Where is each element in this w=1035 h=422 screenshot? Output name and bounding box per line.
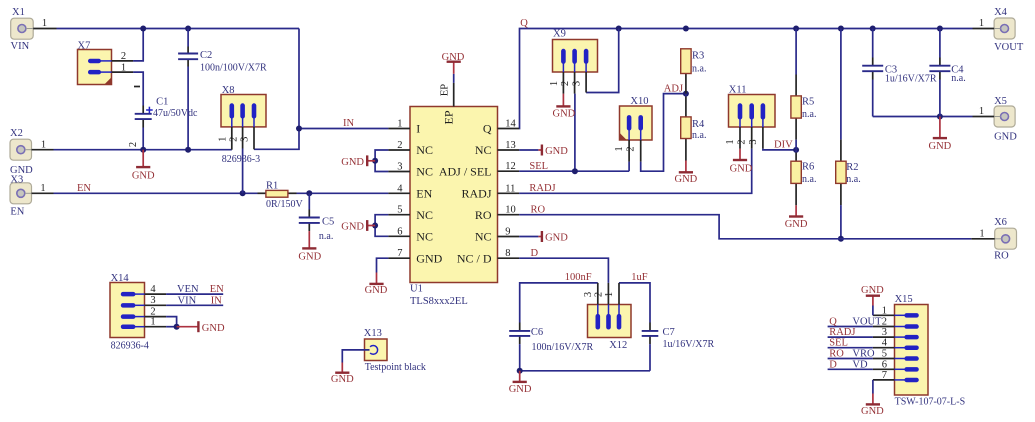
svg-text:VD: VD [852, 359, 868, 370]
svg-text:EP: EP [439, 84, 450, 96]
X15 pin 2 Q VOUT wire [828, 317, 895, 328]
X14 pin 4 VEN wire [145, 284, 225, 295]
U1 pin 2 NC [388, 140, 433, 157]
svg-text:2: 2 [882, 317, 887, 328]
svg-text:2: 2 [594, 292, 605, 297]
svg-text:C2: C2 [200, 50, 212, 61]
svg-text:X4: X4 [994, 7, 1008, 18]
svg-text:2: 2 [560, 81, 571, 86]
svg-text:n.a.: n.a. [319, 231, 333, 242]
svg-text:C1: C1 [156, 97, 168, 108]
svg-text:GND: GND [675, 174, 698, 185]
connector X2 GND [10, 128, 54, 176]
svg-text:n.a.: n.a. [692, 130, 706, 141]
wire U1 pins5-6 to ground [375, 215, 388, 237]
svg-text:RADJ: RADJ [829, 327, 855, 338]
svg-text:GND: GND [785, 219, 808, 230]
node X14 gnd junction [174, 324, 180, 330]
capacitor C4 n.a. [929, 64, 965, 84]
U1 pin 13 NC [475, 140, 519, 157]
U1 pin 9 NC [475, 227, 519, 244]
svg-text:NC: NC [416, 208, 433, 222]
wire R6 top from DIV [795, 150, 797, 161]
svg-text:GND: GND [202, 323, 225, 334]
svg-text:2: 2 [228, 137, 239, 142]
ground below X11 pin1 [730, 149, 753, 175]
wire U1 pin7 to ground [377, 258, 389, 272]
wire X10 pin1 stub to SEL [628, 162, 630, 172]
svg-text:SEL: SEL [529, 161, 548, 172]
svg-text:1: 1 [549, 81, 560, 86]
wire X10 pin2 to ADJ [641, 94, 686, 172]
svg-text:X14: X14 [111, 273, 130, 284]
svg-text:7: 7 [882, 370, 887, 381]
connector X8 826936-3 [217, 85, 266, 193]
U1 pin 8 NC / D [457, 248, 519, 265]
svg-text:1uF: 1uF [631, 272, 648, 283]
svg-text:C7: C7 [663, 327, 675, 338]
wire Q net from U1 pin14 along top [519, 29, 972, 129]
X15 pin 6 D VD wire [828, 359, 895, 370]
U1 pin 4 EN [388, 183, 432, 200]
node EN junction at C5 [306, 190, 312, 196]
ground left of U1 pins5-6 [341, 220, 375, 233]
svg-text:1: 1 [979, 228, 984, 239]
svg-text:GND: GND [929, 141, 952, 152]
svg-text:n.a.: n.a. [692, 64, 706, 75]
svg-text:GND: GND [416, 251, 442, 265]
connector X12 [583, 283, 631, 351]
U1 pin 14 Q [483, 119, 519, 136]
wire U1 pins2-3 to ground [375, 150, 388, 172]
svg-text:n.a.: n.a. [802, 109, 816, 120]
connector X1 VIN [11, 7, 57, 52]
svg-text:4: 4 [882, 338, 888, 349]
svg-text:1: 1 [725, 139, 736, 144]
ground below X15 pin7 [861, 394, 884, 418]
U1 pin 10 RO [475, 205, 519, 222]
node SEL junction X9 pin2 [572, 168, 578, 174]
op-amp-like IC U1 TLS8xxx2EL body [410, 107, 498, 307]
ground below C4 [929, 117, 952, 152]
connector X10 [614, 96, 652, 162]
ground below R6 [785, 183, 808, 229]
node Q junction R2 [838, 26, 844, 32]
svg-text:1: 1 [121, 62, 126, 73]
wire X9 pin3 to Q [586, 29, 619, 93]
capacitor C2 100n/100V/X7R [178, 50, 267, 73]
node Q junction C3 [870, 26, 876, 32]
U1 pin 12 ADJ / SEL [439, 161, 519, 179]
U1 pin 3 NC [388, 162, 433, 179]
svg-text:GND: GND [994, 132, 1017, 143]
svg-text:Q: Q [520, 18, 528, 29]
svg-text:X1: X1 [12, 7, 25, 18]
svg-text:100nF: 100nF [565, 272, 592, 283]
svg-text:RO: RO [531, 205, 546, 216]
svg-text:1: 1 [979, 106, 984, 117]
X14 pin 3 VIN wire [145, 295, 224, 306]
svg-text:EN: EN [77, 183, 91, 194]
resistor R2 n.a. [836, 161, 861, 185]
svg-text:826936-3: 826936-3 [222, 154, 260, 165]
svg-text:1: 1 [150, 317, 155, 328]
svg-text:R6: R6 [802, 162, 814, 173]
U1 pin EP [439, 83, 455, 125]
connector X14 826936-4 [110, 273, 149, 352]
connector X6 RO [971, 217, 1016, 262]
wire R2 top from Q [840, 29, 842, 162]
ground below R4 [675, 139, 698, 186]
svg-text:NC: NC [416, 230, 433, 244]
svg-text:GND: GND [553, 109, 576, 120]
wire VOUT bottom segment C3 to X5 [873, 116, 973, 118]
node VIN junction at C1 branch [140, 26, 146, 32]
node EN junction at X8 pin2 [240, 190, 246, 196]
svg-text:47u/50Vdc: 47u/50Vdc [153, 108, 198, 119]
node Q junction R3 [683, 26, 689, 32]
wire X11 pin3 to DIV [763, 149, 796, 150]
svg-text:GND: GND [365, 285, 388, 296]
svg-text:C5: C5 [322, 216, 334, 227]
svg-text:Q: Q [483, 122, 492, 136]
svg-text:NC: NC [416, 143, 433, 157]
wire C2 branch vertical [187, 29, 189, 150]
svg-text:13: 13 [505, 140, 516, 151]
svg-text:NC: NC [475, 230, 492, 244]
svg-text:n.a.: n.a. [802, 174, 816, 185]
svg-text:1u/16V/X7R: 1u/16V/X7R [663, 339, 715, 350]
U1 pin 1 I [388, 119, 420, 136]
svg-text:1: 1 [979, 18, 984, 29]
resistor R4 n.a. [681, 117, 707, 141]
svg-text:GND: GND [442, 52, 465, 63]
node IN junction [296, 126, 302, 132]
svg-text:2: 2 [128, 142, 139, 147]
svg-text:GND: GND [730, 163, 753, 174]
connector X5 GND [973, 96, 1018, 143]
svg-text:X3: X3 [10, 175, 23, 186]
svg-text:Testpoint black: Testpoint black [365, 362, 426, 373]
svg-text:4: 4 [397, 183, 403, 194]
node VIN junction at C2 branch [185, 26, 191, 32]
svg-text:3: 3 [882, 327, 887, 338]
svg-text:RO: RO [475, 208, 492, 222]
svg-text:826936-4: 826936-4 [111, 340, 149, 351]
ground below C5 [298, 231, 321, 262]
node U1 pin5-6 gnd junction [372, 223, 378, 229]
svg-text:EN: EN [210, 284, 224, 295]
X15 pin 1 wire to ground [873, 305, 895, 316]
svg-text:GND: GND [545, 146, 568, 157]
svg-text:1: 1 [217, 137, 228, 142]
svg-text:5: 5 [882, 349, 887, 360]
svg-text:IN: IN [343, 118, 354, 129]
svg-text:X15: X15 [895, 294, 913, 305]
svg-text:1: 1 [42, 18, 47, 29]
node GND junction at C2 [185, 147, 191, 153]
ground below X9 pin1 [553, 94, 576, 120]
svg-text:NC / D: NC / D [457, 251, 492, 265]
svg-text:8: 8 [505, 248, 510, 259]
svg-text:ADJ: ADJ [664, 84, 683, 95]
svg-text:12: 12 [505, 161, 516, 172]
wire X9 pin2 to SEL [574, 94, 576, 172]
wire R4 top from ADJ [685, 94, 687, 117]
wire 1uF branch to C7 [619, 283, 650, 371]
ground right of U1 pin9 [519, 231, 568, 244]
svg-text:1: 1 [614, 146, 625, 151]
svg-text:NC: NC [416, 165, 433, 179]
svg-text:2: 2 [625, 146, 636, 151]
svg-text:X8: X8 [222, 85, 235, 96]
svg-text:SEL: SEL [829, 338, 848, 349]
svg-text:9: 9 [505, 227, 510, 238]
svg-text:Q: Q [829, 317, 837, 328]
svg-text:6: 6 [397, 226, 402, 237]
svg-text:IN: IN [211, 295, 222, 306]
svg-text:X12: X12 [609, 340, 627, 351]
svg-text:VEN: VEN [177, 284, 199, 295]
svg-text:2: 2 [121, 51, 126, 62]
svg-text:n.a.: n.a. [846, 174, 860, 185]
svg-text:DIV: DIV [774, 140, 793, 151]
svg-text:X2: X2 [10, 128, 23, 139]
svg-text:1: 1 [397, 119, 402, 130]
X15 pin 4 SEL wire [828, 338, 895, 349]
ground right of X14 [177, 321, 225, 334]
ground below C6 [509, 371, 532, 395]
ground left of U1 pins2-3 [341, 155, 375, 168]
svg-text:100n/16V/X7R: 100n/16V/X7R [532, 342, 594, 353]
svg-text:3: 3 [748, 139, 759, 144]
resistor R3 n.a. [681, 49, 707, 75]
svg-text:GND: GND [132, 171, 155, 182]
svg-text:X11: X11 [729, 85, 747, 96]
svg-text:1u/16V/X7R: 1u/16V/X7R [885, 73, 937, 84]
wire RADJ net [519, 149, 752, 194]
node Q junction R5 [793, 26, 799, 32]
svg-text:C6: C6 [531, 327, 543, 338]
wire C3 vertical [872, 29, 874, 117]
svg-text:VIN: VIN [11, 41, 30, 52]
U1 pin 11 RADJ [461, 183, 519, 200]
U1 pin 5 NC [388, 205, 433, 222]
svg-text:R4: R4 [692, 119, 705, 130]
svg-text:I: I [416, 122, 420, 136]
svg-text:n.a.: n.a. [951, 73, 965, 84]
svg-text:X7: X7 [78, 41, 91, 52]
wire R2 bottom to RO [840, 183, 842, 238]
node Q junction C4 [937, 26, 943, 32]
U1 pin 6 NC [388, 226, 433, 243]
X14 pin 2 wire [145, 306, 177, 326]
svg-text:TLS8xxx2EL: TLS8xxx2EL [410, 296, 468, 307]
svg-text:VIN: VIN [178, 295, 197, 306]
node U1 pin2-3 gnd junction [372, 158, 378, 164]
svg-text:0R/150V: 0R/150V [266, 199, 303, 210]
wire D net from U1 pin8 [519, 258, 608, 283]
svg-text:R1: R1 [266, 180, 278, 191]
svg-text:3: 3 [397, 162, 402, 173]
wire EN net from X3 to U1 pin4 [54, 192, 389, 194]
connector X9 [549, 29, 598, 94]
node RO junction R2 [838, 236, 844, 242]
svg-text:1: 1 [41, 139, 46, 150]
svg-text:X6: X6 [994, 217, 1007, 228]
wire X7 pin1 to C1 [133, 72, 143, 150]
capacitor C3 1u/16V/X7R [862, 64, 937, 84]
U1 pin 7 GND [388, 248, 442, 265]
svg-text:10: 10 [505, 205, 516, 216]
svg-text:2: 2 [397, 140, 402, 151]
X15 pin 7 wire to ground [873, 370, 895, 394]
capacitor C6 100n/16V/X7R [509, 327, 593, 353]
svg-text:VOUT: VOUT [994, 42, 1024, 53]
svg-text:100n/100V/X7R: 100n/100V/X7R [200, 63, 267, 74]
node C6 gnd junction [517, 368, 523, 374]
svg-text:3: 3 [240, 137, 251, 142]
svg-text:GND: GND [341, 222, 364, 233]
svg-text:NC: NC [475, 143, 492, 157]
svg-text:3: 3 [150, 295, 155, 306]
ground below C1 [132, 150, 155, 182]
resistor R1 0R/150V [266, 180, 304, 210]
svg-text:GND: GND [341, 157, 364, 168]
ground above X15 pin1 [861, 285, 884, 306]
svg-text:EN: EN [416, 187, 432, 201]
svg-text:D: D [829, 359, 837, 370]
svg-text:X13: X13 [364, 328, 382, 339]
svg-text:X9: X9 [553, 29, 566, 40]
wire EP pin to ground [453, 74, 455, 83]
wire C4 vertical [939, 29, 941, 117]
svg-text:6: 6 [882, 359, 887, 370]
svg-text:4: 4 [150, 284, 156, 295]
node GND junction at C1 [140, 147, 146, 153]
svg-text:VRO: VRO [852, 349, 875, 360]
ground above EP [442, 52, 465, 74]
node DIV junction [793, 147, 799, 153]
svg-text:RO: RO [994, 251, 1009, 262]
svg-text:D: D [531, 248, 539, 259]
connector X11 [725, 85, 775, 149]
X14 pin 1 wire [145, 317, 177, 328]
testpoint X13 [331, 328, 426, 385]
svg-text:EP: EP [442, 110, 456, 124]
capacitor C5 n.a. [299, 216, 334, 242]
connector X15 TSW-107-07-L-S [895, 294, 966, 407]
connector X4 VOUT [973, 7, 1024, 53]
wire 100nF branch to C6 [520, 283, 598, 371]
svg-text:X10: X10 [630, 96, 648, 107]
svg-text:14: 14 [505, 119, 516, 130]
svg-text:2: 2 [737, 139, 748, 144]
wire R3 bottom to ADJ [685, 74, 687, 94]
X15 pin 5 RO VRO wire [828, 349, 895, 360]
svg-text:R5: R5 [802, 97, 814, 108]
node Q junction X9 pin3 [616, 26, 622, 32]
svg-text:5: 5 [397, 205, 402, 216]
svg-text:GND: GND [298, 251, 321, 262]
capacitor C1 47u/50Vdc polarized [128, 87, 198, 148]
node VOUT-gnd junction C4 [937, 114, 943, 120]
wire SEL net [519, 170, 629, 172]
svg-text:EN: EN [10, 207, 24, 218]
wire C5 branch [308, 193, 310, 231]
resistor R6 n.a. [791, 161, 817, 185]
svg-text:7: 7 [397, 248, 402, 259]
ground below U1 pin7 [365, 273, 388, 296]
svg-text:R2: R2 [846, 162, 858, 173]
wire C6 to C7 bottom [520, 370, 650, 372]
svg-text:R3: R3 [692, 51, 704, 62]
svg-text:1: 1 [40, 183, 45, 194]
node ADJ junction [683, 91, 689, 97]
svg-text:1: 1 [604, 292, 615, 297]
wire VIN branch to X7 pin2 [133, 29, 143, 61]
resistor R5 n.a. [791, 96, 817, 120]
wire GND net from X2 [54, 149, 232, 151]
svg-text:1: 1 [882, 305, 887, 316]
svg-text:RO: RO [829, 349, 844, 360]
wire VIN net top segment [57, 28, 300, 30]
svg-text:RADJ: RADJ [529, 183, 555, 194]
wire R5 bottom to DIV [795, 118, 797, 150]
svg-text:GND: GND [545, 233, 568, 244]
svg-text:3: 3 [583, 292, 594, 297]
svg-text:GND: GND [861, 406, 884, 417]
svg-text:11: 11 [505, 183, 515, 194]
connector X7 jumper [78, 41, 134, 85]
wire RO net [519, 215, 971, 239]
svg-text:TSW-107-07-L-S: TSW-107-07-L-S [895, 397, 966, 408]
svg-text:X5: X5 [994, 96, 1007, 107]
svg-text:RADJ: RADJ [461, 187, 491, 201]
svg-text:U1: U1 [410, 284, 423, 295]
svg-text:GND: GND [861, 285, 884, 296]
svg-text:GND: GND [509, 384, 532, 395]
svg-text:ADJ / SEL: ADJ / SEL [439, 165, 492, 179]
wire R5 top from Q [795, 29, 797, 96]
svg-text:3: 3 [572, 81, 583, 86]
X15 pin 3 RADJ wire [828, 327, 895, 338]
svg-text:GND: GND [331, 374, 354, 385]
ground right of U1 pin13 [519, 145, 568, 158]
connector X3 EN [10, 175, 54, 218]
wire IN net vertical and to U1 pin1 [254, 29, 388, 150]
svg-text:VOUT: VOUT [852, 317, 882, 328]
capacitor C7 1u/16V/X7R [642, 327, 715, 350]
